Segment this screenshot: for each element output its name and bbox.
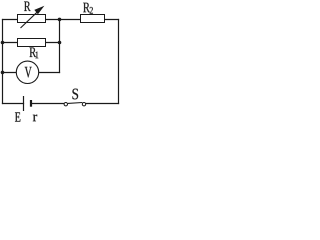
label R2 [83, 3, 90, 12]
resistor R2 [81, 15, 105, 23]
wire voltmeter branch [3, 72, 60, 74]
switch S [64, 103, 86, 106]
wire middle vertical node [59, 20, 61, 73]
label R1 [30, 48, 37, 57]
node junction top [58, 18, 62, 22]
wire switch to right corner [86, 103, 119, 105]
node junction left R1 [1, 41, 5, 45]
wire bottom left to battery [3, 103, 24, 105]
node junction right R1 [58, 41, 62, 45]
label r [33, 115, 37, 122]
voltmeter V [16, 61, 38, 83]
wire right side [118, 20, 120, 104]
battery E r [24, 96, 32, 111]
wire left side [2, 20, 4, 104]
label S [72, 89, 78, 100]
label R [24, 2, 30, 11]
wire battery to switch [32, 103, 64, 105]
node junction left voltmeter [1, 71, 5, 75]
wire top [3, 19, 119, 21]
resistor R1 [18, 39, 46, 47]
wire R1 branch [3, 42, 60, 44]
resistor R (rheostat) [18, 6, 46, 28]
label E [15, 112, 20, 121]
